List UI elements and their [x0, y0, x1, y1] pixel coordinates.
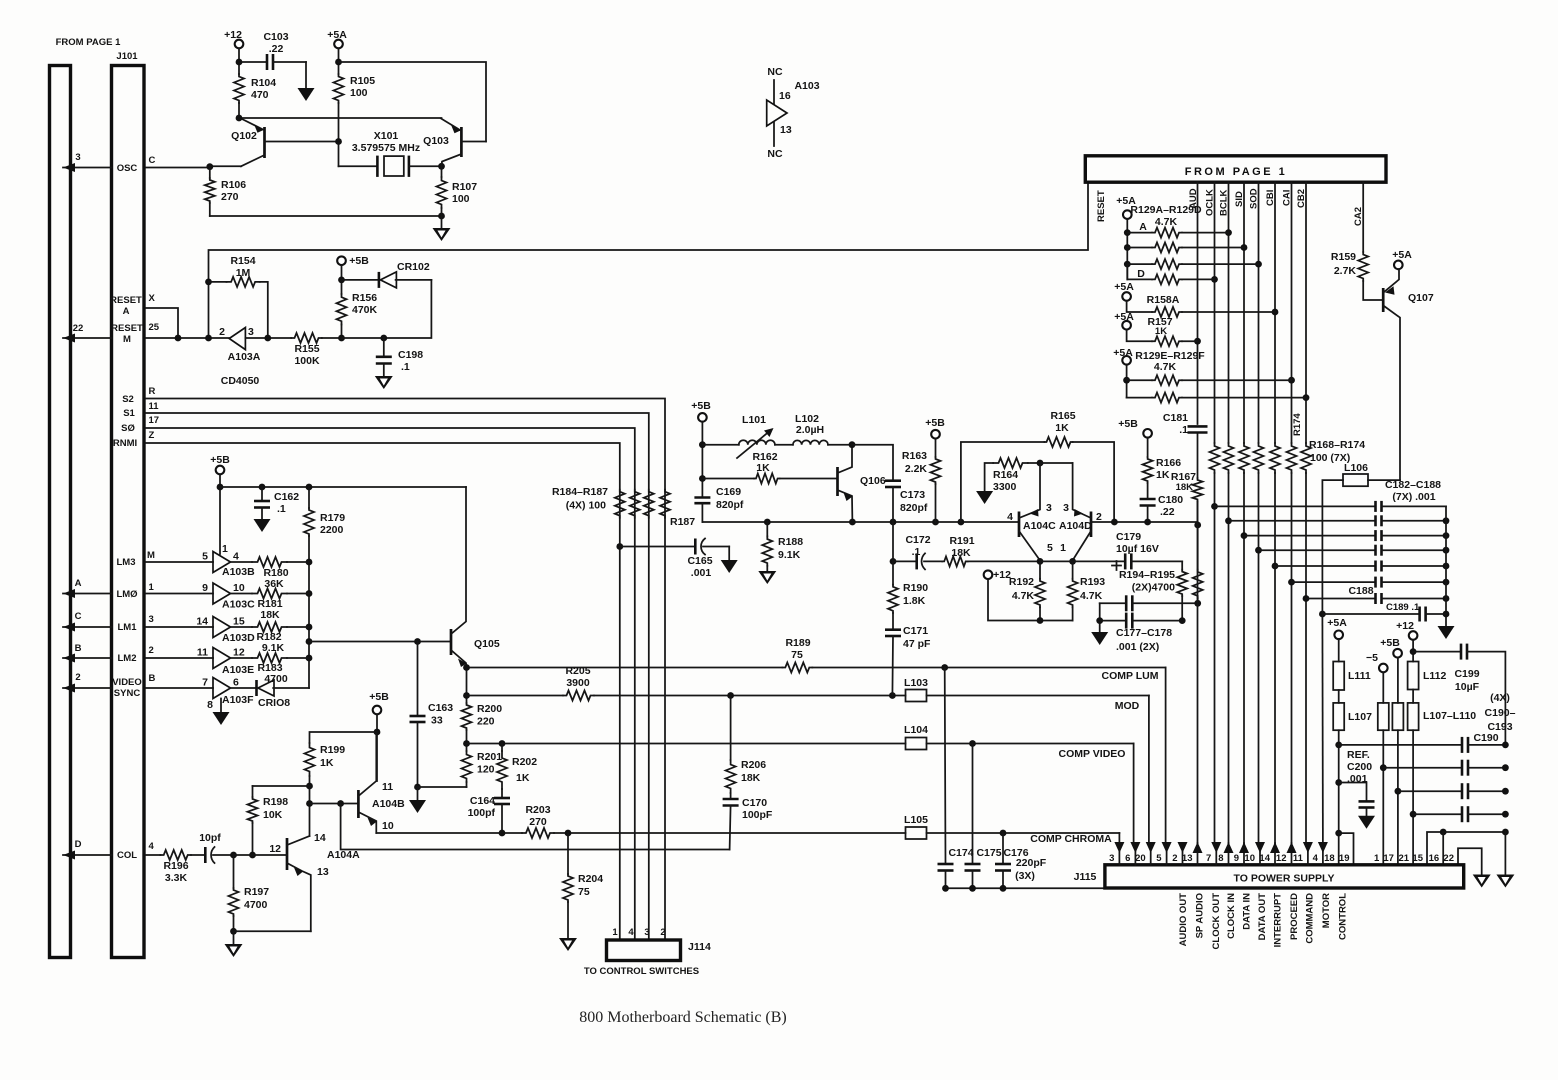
svg-text:L112: L112 [1423, 670, 1447, 682]
svg-text:AUDIO OUT: AUDIO OUT [1178, 893, 1189, 947]
resistor R192 4.7K [1009, 561, 1045, 620]
label SP AUDIO [1195, 893, 1206, 938]
wire BCLK bus [1225, 182, 1232, 845]
svg-text:+12: +12 [1396, 620, 1414, 632]
svg-text:5: 5 [1156, 853, 1162, 864]
svg-text:L111: L111 [1348, 670, 1371, 682]
resistor R193 4.7K [1068, 561, 1106, 620]
ground (cap bank) [1438, 626, 1455, 639]
label PROCEED [1289, 893, 1300, 940]
ground (A103F) [213, 699, 230, 726]
label COMMAND [1305, 893, 1316, 944]
svg-text:R154: R154 [230, 255, 255, 267]
svg-text:6: 6 [1125, 853, 1130, 864]
svg-text:DATA OUT: DATA OUT [1257, 893, 1268, 941]
svg-text:18K: 18K [1176, 482, 1194, 493]
svg-text:LM3: LM3 [117, 557, 136, 568]
capacitor C192 [1398, 783, 1509, 799]
svg-text:R184–R187: R184–R187 [552, 486, 608, 498]
transistor Q106 [838, 441, 886, 522]
svg-text:Z: Z [149, 430, 155, 441]
capacitor C169 820pf [694, 486, 744, 522]
svg-text:C181: C181 [1163, 412, 1188, 424]
svg-text:TO CONTROL SWITCHES: TO CONTROL SWITCHES [584, 966, 699, 977]
resistor R202 1K [497, 744, 537, 799]
svg-text:100pf: 100pf [468, 807, 496, 819]
svg-text:3: 3 [248, 326, 254, 338]
svg-text:SYNC: SYNC [114, 688, 141, 699]
resistor R156 470K [337, 277, 378, 342]
resistor R191 18K [942, 535, 1040, 566]
resistor R157 1K [1147, 316, 1197, 346]
label AUDIO OUT [1178, 893, 1189, 947]
power +5A (Q107) [1392, 249, 1412, 269]
svg-text:+5B: +5B [210, 454, 230, 466]
crystal X101 3.579575 MHz [335, 130, 445, 177]
wire AUD bus [1194, 182, 1201, 528]
svg-text:13: 13 [1182, 853, 1193, 864]
svg-text:L103: L103 [904, 677, 928, 689]
wire chroma bottom rail [702, 519, 1019, 526]
svg-text:10µF: 10µF [1455, 681, 1480, 693]
svg-text:3: 3 [149, 614, 154, 625]
svg-text:2.2K: 2.2K [905, 463, 928, 475]
svg-text:A104A: A104A [327, 849, 360, 861]
svg-text:2: 2 [75, 672, 80, 683]
resistor R190 1.8K [888, 522, 928, 630]
svg-text:820pf: 820pf [900, 502, 928, 514]
capacitor C170 100pF [723, 797, 773, 850]
svg-text:L107–L110: L107–L110 [1423, 710, 1476, 722]
svg-text:10: 10 [1244, 853, 1255, 864]
capacitor C103 [236, 31, 306, 70]
wire COMP LUM line [463, 664, 1166, 843]
wire CB2 bus [1303, 182, 1310, 845]
svg-text:11: 11 [197, 647, 208, 659]
capacitor C174 [938, 668, 974, 889]
resistor R196 3.3K [160, 850, 204, 884]
svg-text:18K: 18K [260, 609, 280, 621]
svg-text:4: 4 [149, 841, 155, 852]
svg-text:FROM PAGE 1: FROM PAGE 1 [1185, 166, 1287, 178]
net label SOD [1249, 188, 1260, 209]
wire LM2 / pin 2 / pin B [63, 643, 213, 664]
wire SOD bus [1255, 182, 1262, 845]
svg-text:220: 220 [477, 716, 495, 728]
svg-text:470: 470 [251, 89, 269, 101]
wire A104 base line right [1111, 519, 1198, 845]
svg-text:R197: R197 [244, 886, 269, 898]
svg-text:CRIO8: CRIO8 [258, 697, 290, 709]
capacitor C180 .22 [1140, 494, 1184, 522]
svg-text:C103: C103 [263, 31, 288, 43]
svg-text:A103F: A103F [222, 694, 254, 706]
capacitor C162 .1 [254, 484, 299, 519]
svg-text:C180: C180 [1158, 494, 1183, 506]
svg-text:.001 (2X): .001 (2X) [1116, 641, 1159, 653]
svg-text:(2X)4700: (2X)4700 [1132, 582, 1175, 594]
pin 9 J115 (arrow out) [1234, 842, 1249, 865]
wire LM1 / pin 3 / pin C [63, 611, 213, 633]
pin 8 J115 (arrow out) [1218, 842, 1233, 865]
svg-text:C: C [149, 155, 156, 166]
svg-text:4.7K: 4.7K [1012, 590, 1035, 602]
svg-text:3: 3 [75, 152, 80, 163]
wire +5B buffer rail [220, 486, 466, 488]
wire pin22 to ground [1458, 848, 1482, 874]
svg-text:2: 2 [660, 927, 665, 938]
wire CBI bus [1272, 182, 1279, 845]
svg-text:R166: R166 [1156, 457, 1181, 469]
svg-text:C198: C198 [398, 349, 423, 361]
svg-text:2: 2 [1096, 511, 1102, 523]
svg-text:R192: R192 [1009, 576, 1034, 588]
svg-text:2: 2 [219, 326, 225, 338]
svg-text:1K: 1K [1156, 469, 1170, 481]
svg-text:(4X) 100: (4X) 100 [566, 500, 606, 512]
wire A103A output node [245, 335, 291, 342]
svg-text:17: 17 [149, 415, 160, 426]
svg-text:R179: R179 [320, 512, 345, 524]
resistor R155 100K [291, 333, 341, 367]
svg-text:.1: .1 [401, 361, 410, 373]
wire S1 / pin 11 [123, 401, 649, 940]
inductor L106 [1322, 462, 1400, 614]
pin 11 J115 (arrow in) [1293, 842, 1313, 865]
wire Q105 base node [309, 638, 451, 645]
svg-text:R194–R195: R194–R195 [1119, 569, 1175, 581]
capacitor C189 .1 [1319, 602, 1446, 622]
svg-text:M: M [147, 550, 155, 561]
wire COMP CHROMA line [376, 830, 1119, 845]
svg-text:R168–R174: R168–R174 [1309, 439, 1365, 451]
svg-text:14: 14 [196, 616, 208, 628]
label CONTROL [1338, 893, 1349, 940]
transistor Q107 [1383, 269, 1434, 480]
ground (R107) [433, 216, 451, 241]
wire C-bank common to ground [1504, 832, 1506, 875]
svg-text:RNMI: RNMI [113, 438, 137, 449]
net label CAI [1282, 190, 1293, 206]
svg-text:470K: 470K [352, 304, 378, 316]
net label AUD [1188, 188, 1199, 209]
svg-text:+5A: +5A [327, 29, 347, 41]
box FROM PAGE 1 [1085, 156, 1386, 182]
svg-text:R163: R163 [902, 450, 927, 462]
resistor R182 9.1K [231, 622, 310, 654]
resistor R205 3900 [563, 665, 594, 701]
capacitors C182-C188 (7X) .001 [1215, 479, 1450, 604]
svg-text:C174: C174 [948, 847, 973, 859]
svg-text:2.0µH: 2.0µH [796, 424, 824, 436]
pin 12 J115 (arrow out) [1276, 842, 1297, 865]
pin 17 J115 [1383, 853, 1394, 864]
resistor R166 1K [1143, 457, 1182, 499]
resistor R180 36K [231, 557, 310, 590]
svg-text:Q105: Q105 [474, 638, 500, 650]
svg-text:D: D [75, 839, 82, 850]
ground (pin22) [1473, 875, 1491, 888]
pin 18 J115 [1324, 853, 1335, 864]
svg-text:C165: C165 [687, 555, 712, 567]
svg-text:17: 17 [1383, 853, 1394, 864]
svg-text:19: 19 [1339, 853, 1350, 864]
pin 22 J115 [1443, 853, 1454, 864]
svg-text:A103B: A103B [222, 566, 255, 578]
capacitor C176 220pF (3X) [995, 833, 1047, 888]
resistor R104 470 [234, 74, 276, 118]
svg-text:COMMAND: COMMAND [1305, 893, 1316, 944]
transistor A104A / pins 12,14,13 [269, 832, 360, 931]
wire RNMI / pin Z [113, 430, 620, 940]
svg-text:+5A: +5A [1327, 617, 1347, 629]
svg-text:R196: R196 [163, 860, 188, 872]
resistor R106 270 [205, 166, 246, 216]
svg-text:L101: L101 [742, 414, 766, 426]
svg-text:C169: C169 [716, 486, 741, 498]
power +5A (R158A) [1114, 281, 1152, 312]
svg-text:PROCEED: PROCEED [1289, 893, 1300, 940]
pin 4 J115 (arrow in) [1313, 842, 1328, 865]
svg-text:.001: .001 [691, 567, 712, 579]
svg-text:R129A–R129D: R129A–R129D [1130, 204, 1202, 216]
svg-text:CR102: CR102 [397, 261, 430, 273]
wire RESET from page 1 [209, 182, 1089, 338]
capacitor C172 .1 [890, 534, 943, 569]
svg-text:R190: R190 [903, 582, 928, 594]
power +5B (R166) [1118, 418, 1152, 457]
svg-text:A: A [123, 306, 130, 317]
svg-text:1K: 1K [320, 757, 334, 769]
pin 13 J115 (arrow out) [1182, 842, 1203, 865]
buffer A103E / pins 11,12 [197, 647, 254, 677]
transistor Q105 [451, 487, 500, 668]
resistor R199 1K [305, 743, 346, 789]
ground (C103) [298, 62, 315, 101]
ground (C162) [254, 519, 271, 532]
resistor R163 2.2K [902, 417, 945, 522]
capacitor C190 [1339, 732, 1509, 753]
resistor R129C [1127, 259, 1258, 269]
resistors R168-R174 100 (7X) [1210, 413, 1366, 473]
resistor R129A 4.7K [1127, 204, 1228, 238]
svg-text:(7X) .001: (7X) .001 [1392, 491, 1435, 503]
node OSC junction [206, 163, 241, 170]
svg-text:C175: C175 [976, 847, 1001, 859]
svg-text:Q106: Q106 [860, 475, 886, 487]
svg-text:1: 1 [149, 582, 155, 593]
power +5B (L bank) [1380, 637, 1402, 703]
svg-text:4: 4 [628, 927, 634, 938]
svg-text:C: C [75, 611, 82, 622]
capacitor C199 10uF [1413, 644, 1505, 745]
resistor R129B [1127, 243, 1244, 253]
svg-text:SØ: SØ [121, 423, 135, 434]
svg-text:25: 25 [149, 322, 160, 333]
svg-text:M: M [123, 334, 131, 345]
svg-text:1K: 1K [1055, 422, 1069, 434]
power +5B (chroma osc) [691, 400, 711, 498]
svg-text:R164: R164 [993, 469, 1018, 481]
svg-text:+5B: +5B [349, 255, 369, 267]
transistor Q103 [423, 119, 486, 167]
wire oscillator bottom rail [210, 213, 445, 220]
resistors R194-R195 (2X)4700 [1119, 525, 1203, 621]
pin 1 J115 [1374, 853, 1380, 864]
svg-text:C162: C162 [274, 491, 299, 503]
svg-text:+12: +12 [993, 569, 1011, 581]
svg-text:R158A: R158A [1147, 294, 1180, 306]
svg-text:R205: R205 [565, 665, 590, 677]
wire A104B base node [306, 786, 358, 836]
svg-text:R165: R165 [1050, 410, 1075, 422]
svg-text:R156: R156 [352, 292, 377, 304]
svg-text:1.8K: 1.8K [903, 595, 926, 607]
connector J114 [584, 927, 711, 977]
wire RESET A / pin X [110, 293, 178, 338]
pin 2 J115 (arrow in) [1172, 842, 1187, 865]
capacitor C165 .001 [616, 539, 729, 580]
svg-text:100: 100 [350, 87, 368, 99]
resistor R159 2.7K [1331, 182, 1383, 300]
svg-text:COL: COL [117, 850, 137, 861]
resistor R162 1K [702, 451, 837, 484]
ground (R188) [758, 571, 776, 584]
connector cable bar (left) [50, 66, 71, 958]
svg-text:6: 6 [233, 677, 239, 689]
svg-text:−5: −5 [1366, 652, 1378, 664]
wire OCLK bus [1211, 182, 1218, 845]
power +5A (R129A-D) [1116, 195, 1136, 279]
svg-text:LM2: LM2 [118, 653, 137, 664]
svg-text:R107: R107 [452, 181, 477, 193]
wire S0 / pin 17 [121, 415, 635, 940]
svg-text:NC: NC [767, 148, 783, 160]
resistor R179 2200 [304, 484, 345, 536]
svg-text:12: 12 [1276, 853, 1287, 864]
wire RESET M / pin 25 / pin 22 [63, 322, 229, 345]
svg-text:TO POWER SUPPLY: TO POWER SUPPLY [1234, 873, 1335, 885]
resistor R165 1K [961, 410, 1114, 522]
svg-text:C188: C188 [1348, 585, 1373, 597]
svg-text:R: R [149, 386, 156, 397]
svg-text:R203: R203 [525, 804, 550, 816]
net label SID [1234, 191, 1245, 207]
svg-text:+5B: +5B [369, 691, 389, 703]
capacitors C177-C178 .001 (2X) [1096, 595, 1201, 653]
svg-text:R189: R189 [785, 637, 810, 649]
resistors R184-R187 (4X) 100 [552, 486, 695, 528]
svg-text:R159: R159 [1331, 251, 1356, 263]
svg-text:A103: A103 [794, 80, 819, 92]
label (4X) C190-C193 [1485, 692, 1516, 733]
svg-text:C164: C164 [470, 795, 495, 807]
resistor R198 10K [248, 786, 310, 855]
svg-text:+5A: +5A [1392, 249, 1412, 261]
power +5B (reset) [337, 255, 369, 294]
svg-text:820pf: 820pf [716, 499, 744, 511]
svg-text:RESET: RESET [110, 295, 142, 306]
svg-text:3.579575 MHz: 3.579575 MHz [352, 142, 420, 154]
svg-text:1: 1 [222, 543, 228, 555]
svg-text:C189 .1: C189 .1 [1386, 602, 1420, 613]
capacitor C173 820pf [852, 445, 928, 522]
svg-text:270: 270 [529, 816, 547, 828]
capacitor C200 .001 REF [1339, 749, 1375, 816]
ground (C165) [721, 547, 738, 574]
svg-text:7: 7 [1206, 853, 1211, 864]
svg-text:18K: 18K [741, 772, 761, 784]
svg-text:R174: R174 [1292, 413, 1303, 436]
wire MOTOR line to J115 pin 4 [1321, 614, 1324, 845]
svg-text:R199: R199 [320, 744, 345, 756]
resistor R129D [1127, 264, 1214, 284]
svg-text:4: 4 [1007, 511, 1013, 523]
power +5A [327, 29, 347, 74]
wire A104C collector link [1040, 462, 1073, 464]
capacitor C181 .1 [1163, 412, 1208, 436]
svg-text:4.7K: 4.7K [1155, 216, 1178, 228]
svg-text:REF.: REF. [1347, 749, 1370, 761]
svg-text:R106: R106 [221, 179, 246, 191]
svg-text:4.7K: 4.7K [1080, 590, 1103, 602]
svg-text:100: 100 [452, 193, 470, 205]
pin 3 J115 (arrow in) [1109, 842, 1124, 865]
svg-text:COMP LUM: COMP LUM [1102, 670, 1159, 682]
label INTERRUPT [1273, 893, 1284, 948]
svg-text:LMØ: LMØ [116, 589, 137, 600]
svg-text:RESET: RESET [111, 323, 143, 334]
svg-text:J101: J101 [116, 51, 138, 62]
wire emitter node A104C/D [1037, 558, 1126, 565]
svg-text:3: 3 [1063, 502, 1069, 514]
svg-text:20: 20 [1135, 853, 1146, 864]
svg-text:10: 10 [233, 582, 245, 594]
power +5A (R129E-F) [1113, 347, 1133, 398]
svg-text:R155: R155 [294, 343, 319, 355]
svg-text:COMP CHROMA: COMP CHROMA [1030, 833, 1112, 845]
svg-text:A104D: A104D [1059, 520, 1092, 532]
svg-text:4: 4 [233, 551, 239, 563]
svg-text:1: 1 [612, 927, 618, 938]
connector J101 [56, 37, 144, 958]
svg-text:+5B: +5B [691, 400, 711, 412]
ground (R197) [225, 931, 243, 957]
svg-text:9: 9 [1234, 853, 1239, 864]
svg-text:220pF: 220pF [1016, 857, 1047, 869]
wire CAI bus [1288, 182, 1295, 845]
power +12 (L112) [1396, 620, 1417, 662]
svg-text:5: 5 [1047, 542, 1053, 554]
transistor Q102 [231, 118, 338, 166]
svg-text:18: 18 [1324, 853, 1335, 864]
resistor R188 9.1K [762, 522, 803, 571]
pin 7 J115 (arrow in) [1206, 842, 1221, 865]
svg-text:R202: R202 [512, 756, 537, 768]
wire S2 / pin R [122, 386, 665, 940]
capacitor C193 [1413, 806, 1509, 822]
svg-text:R105: R105 [350, 75, 375, 87]
svg-text:8: 8 [207, 699, 213, 711]
label DATA OUT [1257, 893, 1268, 941]
svg-text:B: B [75, 643, 82, 654]
resistor R183 4700 [231, 653, 310, 685]
inductor L107 [1333, 690, 1372, 865]
resistor R204 75 [563, 833, 603, 938]
inductors L107-L110 [1378, 703, 1476, 730]
svg-text:X: X [149, 293, 156, 304]
wire MOD line [467, 692, 1149, 843]
